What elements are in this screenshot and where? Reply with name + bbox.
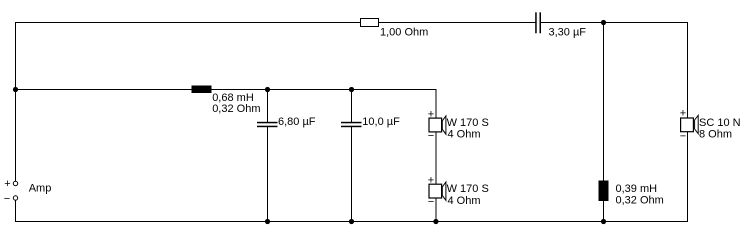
resistor R1 value 1,00 Ohm — [380, 27, 428, 39]
capacitor C1 plates — [535, 12, 541, 33]
inductor L1 value labels — [212, 92, 260, 115]
wire capacitor C3 branch upper — [351, 90, 353, 123]
junction node top rail L2 branch — [601, 20, 606, 25]
svg-text:+: + — [4, 178, 10, 190]
svg-text:+: + — [428, 175, 434, 187]
svg-text:4 Ohm: 4 Ohm — [448, 195, 481, 207]
resistor R1 body — [361, 19, 379, 27]
Amp minus sign — [4, 193, 10, 205]
Amp plus sign — [4, 178, 10, 190]
speaker LS2 plus polarity — [428, 175, 434, 187]
wire right vertical to tweeter — [687, 22, 689, 222]
svg-text:0,32 Ohm: 0,32 Ohm — [616, 195, 664, 207]
wire left vertical from top rail to Amp plus terminal — [15, 22, 17, 182]
svg-text:6,80 µF: 6,80 µF — [278, 116, 316, 128]
speaker LS3 minus polarity — [680, 131, 686, 143]
speaker LS3 tweeter body — [681, 115, 699, 133]
svg-text:W 170 S: W 170 S — [447, 183, 489, 195]
speaker LS1 labels W 170 S / 4 Ohm — [447, 117, 489, 141]
speaker LS2 minus polarity — [428, 196, 434, 208]
inductor L1 body — [192, 86, 212, 94]
svg-text:0,32 Ohm: 0,32 Ohm — [212, 103, 260, 115]
speaker LS3 labels SC 10 N / 8 Ohm — [699, 117, 741, 140]
junction node middle rail left — [13, 87, 18, 92]
speaker LS2 body — [429, 182, 446, 200]
wire middle rail — [15, 89, 436, 91]
svg-text:−: − — [4, 193, 10, 205]
speaker LS3 plus polarity — [680, 108, 686, 120]
wire top rail left segment — [15, 22, 536, 24]
svg-text:0,39 mH: 0,39 mH — [616, 183, 658, 195]
wire capacitor C2 branch upper — [267, 90, 269, 123]
svg-text:Amp: Amp — [29, 183, 52, 195]
wire speaker branch vertical — [435, 89, 437, 222]
Amp minus terminal — [13, 196, 17, 200]
junction node C2 bottom — [265, 219, 270, 224]
inductor L2 value labels — [616, 183, 664, 206]
speaker LS1 plus polarity — [428, 109, 434, 121]
Amp plus terminal — [13, 181, 17, 185]
junction node C2 top — [265, 87, 270, 92]
capacitor C3 plates — [341, 122, 362, 127]
svg-text:−: − — [428, 196, 434, 208]
svg-text:+: + — [680, 108, 686, 120]
svg-text:10,0 µF: 10,0 µF — [362, 116, 400, 128]
capacitor C3 value 10,0 uF — [362, 116, 400, 128]
svg-text:−: − — [680, 131, 686, 143]
speaker LS2 labels W 170 S / 4 Ohm — [447, 183, 489, 207]
capacitor C1 value 3,30 uF — [549, 27, 587, 39]
capacitor C2 value 6,80 uF — [278, 116, 316, 128]
junction node speaker branch bottom — [433, 219, 438, 224]
wire top rail right segment — [541, 22, 688, 24]
junction node C3 top — [349, 87, 354, 92]
svg-text:W 170 S: W 170 S — [447, 117, 489, 129]
svg-text:+: + — [428, 109, 434, 121]
junction node L2 bottom — [601, 219, 606, 224]
speaker LS1 body — [429, 116, 446, 134]
capacitor C2 plates — [257, 122, 278, 127]
wire inductor L2 branch vertical — [603, 23, 605, 223]
svg-text:SC 10 N: SC 10 N — [699, 117, 741, 129]
inductor L2 body — [599, 181, 609, 202]
svg-text:−: − — [428, 130, 434, 142]
svg-text:8 Ohm: 8 Ohm — [699, 128, 732, 140]
wire capacitor C2 branch lower — [267, 127, 269, 223]
svg-text:1,00 Ohm: 1,00 Ohm — [380, 27, 428, 39]
junction node C3 bottom — [349, 219, 354, 224]
Amp label — [29, 183, 52, 195]
speaker LS1 minus polarity — [428, 130, 434, 142]
wire capacitor C3 branch lower — [351, 127, 353, 223]
svg-text:4 Ohm: 4 Ohm — [448, 129, 481, 141]
svg-text:3,30 µF: 3,30 µF — [549, 27, 587, 39]
wire left vertical from Amp minus terminal to bottom rail — [15, 200, 17, 222]
wire bottom rail — [15, 221, 688, 223]
